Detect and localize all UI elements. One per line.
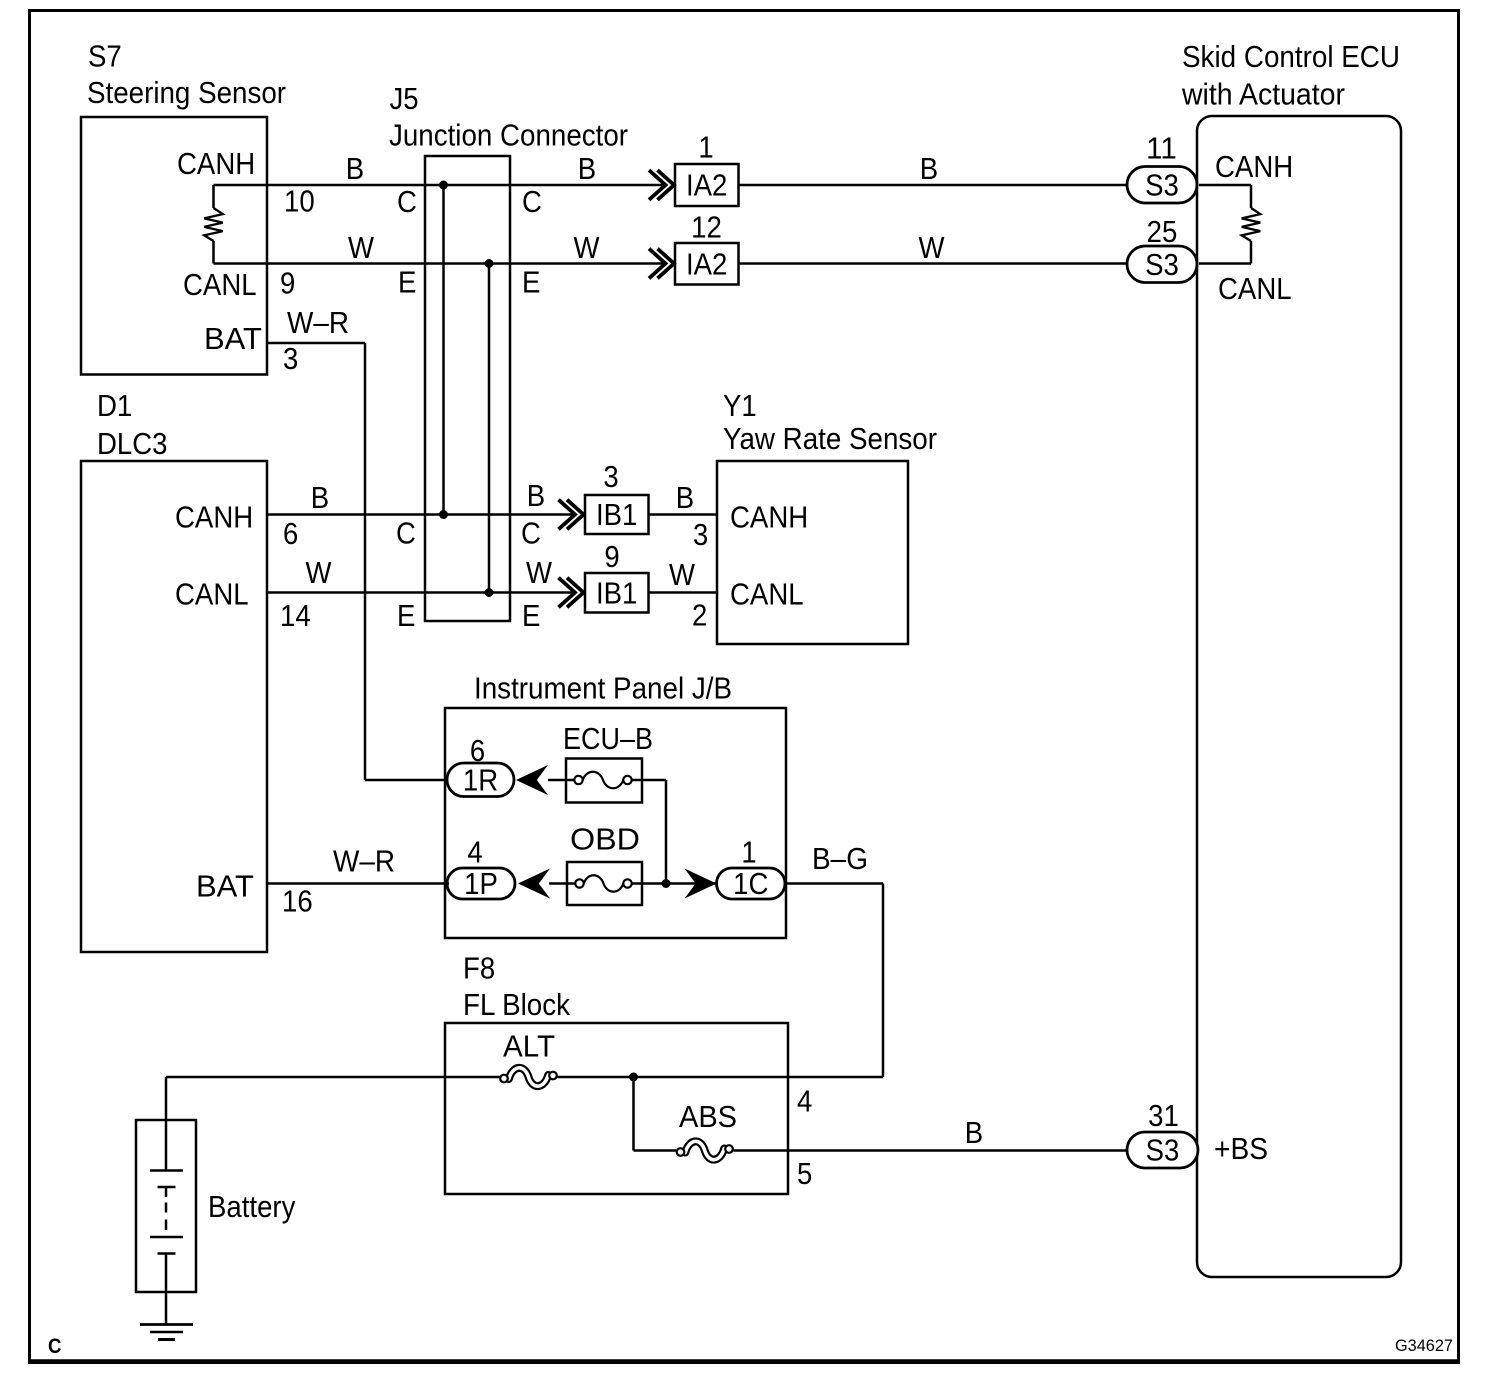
wire W-R BAT horizontal — [267, 342, 365, 345]
svg-text:C: C — [397, 184, 417, 219]
svg-text:Steering Sensor: Steering Sensor — [87, 75, 286, 110]
svg-text:E: E — [397, 598, 415, 633]
svg-text:E: E — [522, 265, 540, 300]
wire CANL inside ECU — [1199, 262, 1251, 265]
svg-text:CANL: CANL — [1218, 271, 1292, 306]
connector 1P — [447, 866, 515, 901]
wire W IB1 to yaw — [649, 591, 718, 594]
svg-text:BAT: BAT — [196, 869, 254, 904]
svg-text:IB1: IB1 — [596, 497, 637, 532]
svg-text:1C: 1C — [733, 866, 768, 901]
svg-text:CANH: CANH — [177, 146, 255, 181]
svg-text:Yaw Rate Sensor: Yaw Rate Sensor — [723, 421, 937, 456]
wire CANH steering — [214, 184, 667, 187]
svg-text:J5: J5 — [390, 81, 419, 116]
fuse OBD — [567, 862, 642, 905]
svg-text:IB1: IB1 — [596, 576, 637, 611]
connector IA2 box 2 — [675, 243, 739, 285]
svg-text:Battery: Battery — [208, 1189, 296, 1224]
junction dot ALT-ABS — [629, 1073, 638, 1082]
svg-text:C: C — [48, 1335, 62, 1358]
svg-text:B: B — [527, 478, 545, 513]
ECU resistor stem bottom — [1250, 241, 1253, 264]
svg-text:CANH: CANH — [1215, 149, 1293, 184]
svg-text:1P: 1P — [464, 866, 498, 901]
svg-text:1: 1 — [741, 835, 756, 870]
wire ABS to S3 — [734, 1149, 1128, 1152]
connector IB1 box 2 — [585, 573, 649, 613]
svg-text:Junction Connector: Junction Connector — [389, 118, 628, 153]
svg-text:16: 16 — [282, 884, 313, 919]
wire B DLC3 CANH — [267, 513, 575, 516]
JC internal wire CANH vertical — [442, 185, 445, 515]
connector arrow to IA2 pin1 — [649, 170, 674, 200]
junction dot W top — [485, 259, 494, 268]
svg-text:with Actuator: with Actuator — [1181, 76, 1345, 111]
wire ABS branch vertical — [632, 1077, 635, 1151]
wire B IA2 to S3 — [739, 184, 1128, 187]
svg-text:B: B — [578, 151, 596, 186]
svg-text:CANH: CANH — [730, 500, 808, 535]
svg-text:1: 1 — [698, 130, 713, 165]
svg-text:W: W — [306, 555, 333, 590]
svg-text:CANH: CANH — [175, 500, 253, 535]
connector IA2 box 1 — [675, 164, 739, 206]
wire W DLC3 CANL — [267, 591, 575, 594]
wire battery to ALT — [166, 1076, 500, 1079]
FL block F8 box — [445, 1023, 788, 1194]
wire B IB1 to yaw — [649, 513, 718, 516]
svg-text:1R: 1R — [463, 762, 498, 797]
svg-text:B–G: B–G — [812, 841, 868, 876]
svg-text:4: 4 — [467, 835, 482, 870]
svg-text:W: W — [669, 557, 696, 592]
svg-text:3: 3 — [283, 341, 298, 376]
svg-text:F8: F8 — [463, 951, 495, 986]
wire CANH inside ECU — [1199, 184, 1251, 187]
wire DLC3 BAT to 1P — [267, 882, 449, 885]
arrow into 1R — [516, 765, 548, 795]
fuse ECU-B — [566, 759, 642, 803]
wire OBD fuse to 1C — [632, 882, 717, 885]
svg-text:W: W — [574, 230, 601, 265]
arrow into 1P — [518, 869, 550, 899]
svg-text:Skid Control ECU: Skid Control ECU — [1182, 39, 1400, 74]
connector 1C — [717, 866, 786, 901]
svg-text:9: 9 — [280, 266, 295, 301]
instrument panel J/B box — [445, 708, 786, 938]
border frame bottom thick — [28, 1359, 1460, 1364]
svg-text:10: 10 — [284, 184, 315, 219]
resistor stem top — [212, 185, 215, 208]
svg-text:IA2: IA2 — [686, 247, 727, 282]
junction dot CANH top — [439, 181, 448, 190]
svg-text:BAT: BAT — [204, 321, 262, 356]
svg-text:W: W — [348, 230, 375, 265]
ground symbol — [140, 1325, 193, 1340]
wire B-G horizontal — [785, 882, 883, 885]
svg-text:S3: S3 — [1145, 247, 1179, 282]
connector S3 pin25 — [1127, 246, 1197, 283]
svg-text:C: C — [396, 516, 416, 551]
fusible link ALT — [500, 1068, 557, 1086]
wire W IA2 to S3 — [739, 262, 1128, 265]
wire ECU-B down to OBD node — [665, 780, 668, 884]
skid control ECU box — [1197, 116, 1401, 1277]
svg-text:9: 9 — [604, 539, 619, 574]
svg-text:6: 6 — [283, 516, 298, 551]
fusible link ABS — [677, 1141, 733, 1159]
svg-text:B: B — [965, 1115, 983, 1150]
svg-text:D1: D1 — [97, 388, 132, 423]
junction connector J5 box — [425, 156, 510, 621]
connector arrow to IB1 pin9 — [559, 578, 584, 608]
svg-text:14: 14 — [280, 598, 311, 633]
svg-text:E: E — [398, 265, 416, 300]
svg-text:W: W — [526, 555, 553, 590]
svg-text:W–R: W–R — [333, 844, 395, 879]
yaw rate sensor Y1 box — [717, 461, 908, 644]
svg-text:+BS: +BS — [1214, 1131, 1268, 1166]
svg-text:4: 4 — [797, 1084, 812, 1119]
wire W-R BAT vertical — [364, 343, 367, 780]
svg-text:31: 31 — [1148, 1098, 1179, 1133]
svg-text:ECU–B: ECU–B — [563, 721, 653, 756]
svg-text:3: 3 — [603, 459, 618, 494]
battery symbol — [150, 1121, 183, 1324]
connector 1R — [447, 762, 514, 797]
svg-text:DLC3: DLC3 — [97, 426, 168, 461]
svg-text:S3: S3 — [1146, 1133, 1180, 1168]
JC internal wire CANL vertical — [488, 264, 491, 593]
svg-text:ABS: ABS — [679, 1099, 737, 1134]
wire 1R to ECU-B fuse — [548, 779, 574, 782]
junction dot CANL bottom — [485, 588, 494, 597]
svg-text:25: 25 — [1147, 214, 1178, 249]
arrow into 1C — [685, 869, 717, 899]
svg-text:OBD: OBD — [570, 822, 640, 857]
svg-text:B: B — [311, 480, 329, 515]
wire B-G vertical — [882, 884, 885, 1078]
wire ALT to 1C corner — [558, 1076, 884, 1079]
svg-text:12: 12 — [691, 210, 722, 245]
wire ABS branch horizontal — [634, 1149, 677, 1152]
svg-text:CANL: CANL — [175, 577, 249, 612]
wire 1P to OBD fuse — [549, 882, 575, 885]
ECU resistor stem top — [1250, 185, 1253, 208]
wire battery vertical — [165, 1077, 168, 1121]
svg-text:C: C — [521, 516, 541, 551]
svg-text:11: 11 — [1146, 131, 1177, 166]
connector IB1 box 1 — [585, 495, 649, 534]
svg-text:B: B — [676, 480, 694, 515]
junction dot OBD node — [662, 879, 671, 888]
svg-text:5: 5 — [797, 1156, 812, 1191]
resistor ECU termination — [1242, 208, 1261, 241]
svg-text:C: C — [522, 184, 542, 219]
svg-text:CANL: CANL — [183, 267, 257, 302]
battery box — [136, 1120, 196, 1292]
connector arrow to IA2 pin12 — [649, 249, 674, 279]
svg-text:FL Block: FL Block — [463, 987, 570, 1022]
wire CANL steering — [214, 262, 667, 265]
svg-text:B: B — [346, 151, 364, 186]
svg-text:CANL: CANL — [730, 577, 804, 612]
DLC3 D1 box — [81, 461, 267, 952]
wire W-R BAT to 1R — [365, 779, 449, 782]
svg-text:E: E — [522, 598, 540, 633]
junction dot CANH bottom — [439, 510, 448, 519]
svg-text:S3: S3 — [1145, 167, 1179, 202]
steering sensor S7 box — [81, 117, 267, 375]
svg-text:2: 2 — [692, 598, 707, 633]
svg-text:Y1: Y1 — [723, 388, 757, 423]
resistor steering termination — [204, 208, 223, 241]
svg-text:Instrument Panel J/B: Instrument Panel J/B — [474, 671, 732, 706]
resistor stem bottom — [212, 241, 215, 264]
svg-text:W–R: W–R — [287, 305, 349, 340]
svg-text:IA2: IA2 — [686, 168, 727, 203]
svg-text:B: B — [920, 151, 938, 186]
svg-text:3: 3 — [693, 517, 708, 552]
svg-text:W: W — [919, 230, 946, 265]
svg-text:ALT: ALT — [503, 1029, 555, 1064]
connector S3 pin11 — [1127, 167, 1197, 204]
connector S3 pin31 — [1127, 1132, 1198, 1168]
connector arrow to IB1 pin3 — [559, 500, 584, 530]
wire ECU-B fuse to corner — [632, 779, 667, 782]
svg-text:S7: S7 — [88, 39, 122, 74]
svg-text:G34627: G34627 — [1395, 1336, 1453, 1355]
